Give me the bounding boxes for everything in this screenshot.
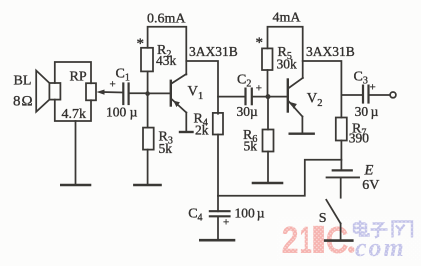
svg-text:30k: 30k [277, 57, 298, 72]
svg-text:C1: C1 [116, 67, 130, 84]
wire R7 to battery [340, 141, 342, 171]
ground R3 [134, 184, 160, 187]
svg-text:8Ω: 8Ω [13, 94, 33, 110]
svg-text:S: S [319, 211, 327, 226]
wire base node down to R6 [267, 97, 269, 130]
svg-text:4.7k: 4.7k [62, 107, 87, 122]
wire base node up to R2 [147, 71, 149, 93]
svg-text:4mA: 4mA [273, 11, 302, 26]
svg-text:100 µ: 100 µ [106, 105, 138, 120]
output terminal [390, 92, 396, 98]
svg-text:+: + [370, 82, 376, 94]
wire speaker/RP loop [55, 62, 91, 121]
svg-text:0.6mA: 0.6mA [147, 12, 186, 27]
transistor V1 [150, 74, 186, 132]
svg-text:+: + [110, 79, 116, 91]
svg-text:+: + [223, 217, 229, 229]
watermark halftone texture [277, 217, 421, 261]
wire RP bottom to ground [75, 121, 77, 184]
wire V1 collector to R4 column [186, 61, 218, 114]
node V2 base [266, 94, 271, 99]
wire C2 to V2 base node [252, 96, 268, 98]
svg-text:30µ: 30µ [355, 104, 379, 119]
capacitor C1 [123, 84, 128, 105]
resistor R4 [213, 113, 223, 135]
wire base node down to R3 [147, 94, 149, 128]
RP wiper arrow [97, 90, 124, 95]
svg-text:RP: RP [70, 70, 87, 85]
wire battery to switch contact [340, 177, 342, 197]
svg-text:E: E [364, 163, 374, 179]
svg-text:3AX31B: 3AX31B [306, 44, 355, 59]
battery E [327, 170, 359, 177]
svg-text:43k: 43k [156, 53, 177, 68]
wire base node up to R5 [267, 70, 269, 97]
svg-text:*: * [256, 35, 264, 51]
svg-text:V1: V1 [188, 84, 204, 103]
transistor V2 [270, 78, 303, 117]
wire R4 to negative rail [217, 135, 219, 196]
wire C3 to output terminal [369, 94, 390, 96]
ground (speaker/RP) [61, 184, 90, 187]
svg-text:C4: C4 [188, 207, 202, 224]
svg-text:100µ: 100µ [235, 206, 265, 221]
resistor R7 [336, 118, 347, 141]
wire V2 emitter down [301, 117, 303, 134]
svg-text:5k: 5k [159, 141, 173, 156]
svg-text:C3: C3 [354, 70, 368, 87]
speaker BL [36, 71, 60, 112]
node V1 base [145, 91, 150, 96]
svg-text:2k: 2k [195, 123, 209, 138]
wire C1 to V1 base node [129, 92, 148, 94]
ground V2 emitter [290, 132, 314, 134]
resistor R6 [263, 130, 274, 152]
wire R5 top over to V2 collector (4mA loop) [268, 27, 303, 78]
wire R3 to ground [147, 150, 149, 184]
ground R6 [253, 182, 282, 185]
negative rail C4 to battery column [218, 160, 341, 196]
wire R2 top over to V1 collector (0.6mA loop) [148, 27, 187, 75]
wire V2 collector to R7 column [303, 61, 342, 118]
ground C4 [200, 239, 234, 242]
svg-text:390: 390 [349, 130, 370, 145]
svg-text:+: + [256, 83, 262, 95]
resistor R5 [262, 48, 273, 70]
svg-text:6V: 6V [362, 178, 379, 193]
svg-text:V2: V2 [307, 91, 323, 110]
svg-text:3AX31B: 3AX31B [189, 44, 238, 59]
watermark 电子网 [354, 221, 412, 238]
svg-text:BL: BL [14, 74, 32, 89]
watermark 21IC [282, 220, 355, 262]
resistor R2 [141, 48, 153, 72]
potentiometer RP [86, 83, 96, 100]
switch S [326, 200, 340, 240]
capacitor C4 [210, 196, 230, 239]
wire C3 tap [341, 94, 362, 96]
ground V1 emitter [180, 131, 193, 133]
resistor R3 [143, 128, 154, 150]
wire R4 column tap to C2 [218, 96, 245, 98]
ground switch [325, 239, 352, 242]
svg-text:C2: C2 [237, 73, 251, 90]
wire R6 to ground [267, 152, 269, 183]
capacitor C2 [246, 89, 252, 105]
svg-text:*: * [137, 36, 145, 52]
svg-text:5k: 5k [244, 139, 258, 154]
capacitor C3 [363, 86, 369, 103]
svg-text:30µ: 30µ [237, 104, 259, 119]
